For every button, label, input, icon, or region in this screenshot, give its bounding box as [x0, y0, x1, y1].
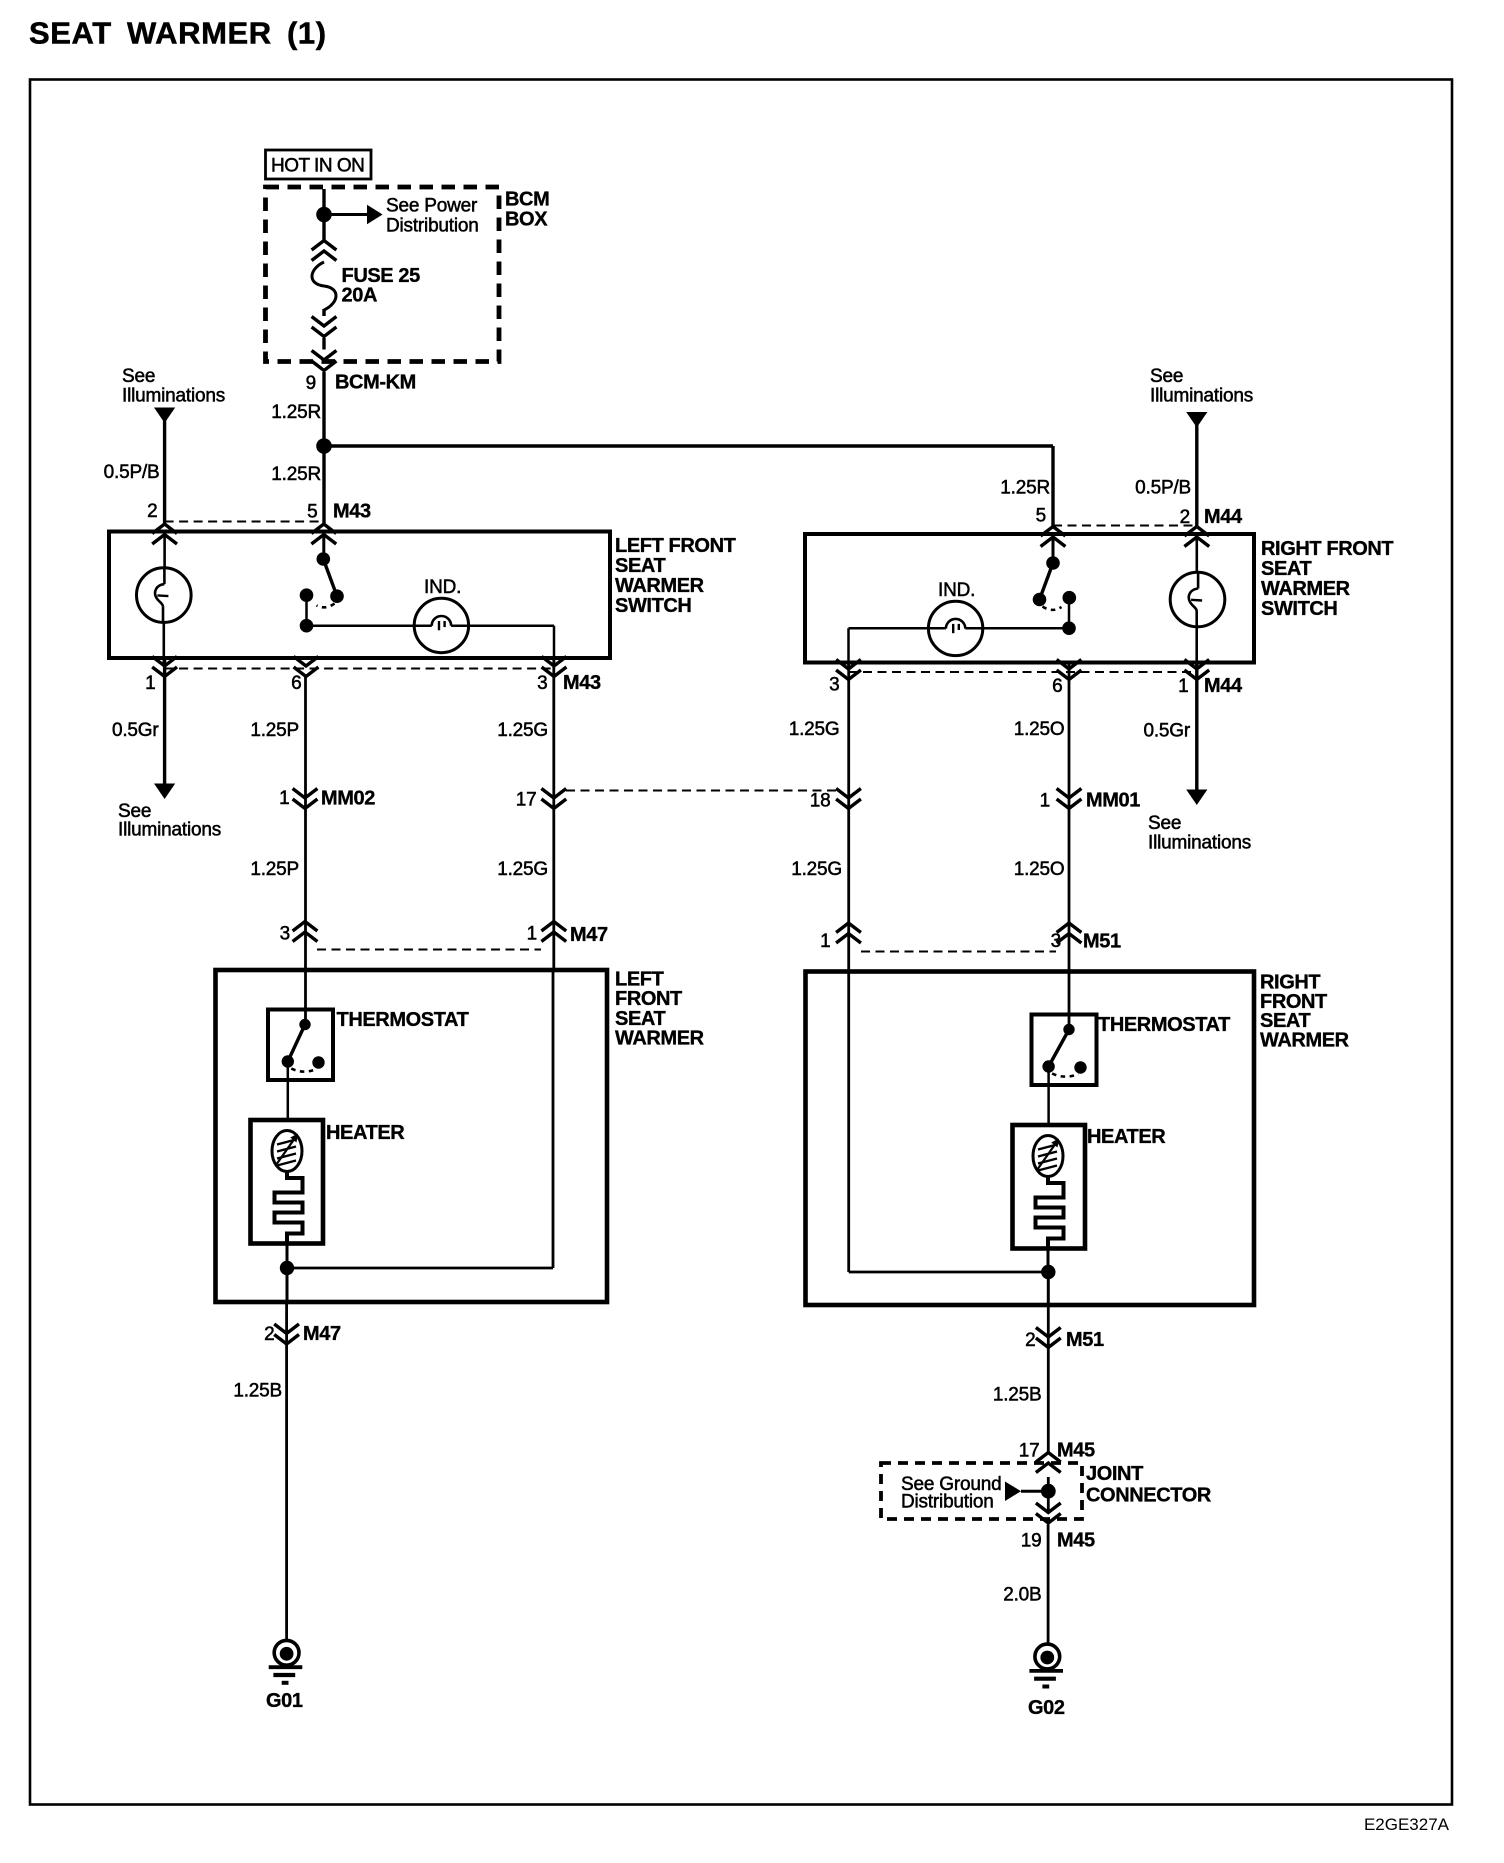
svg-text:M47: M47: [303, 1323, 341, 1345]
svg-text:BCM: BCM: [505, 189, 549, 211]
svg-text:2.0B: 2.0B: [1003, 1585, 1041, 1606]
svg-text:5: 5: [1036, 506, 1046, 527]
svg-text:THERMOSTAT: THERMOSTAT: [1098, 1014, 1230, 1036]
svg-text:WARMER: WARMER: [1260, 1029, 1350, 1051]
svg-text:1.25G: 1.25G: [791, 859, 842, 880]
svg-text:MM01: MM01: [1086, 790, 1140, 812]
svg-text:MM02: MM02: [321, 788, 375, 810]
svg-text:0.5Gr: 0.5Gr: [1143, 721, 1190, 742]
svg-text:3: 3: [1051, 931, 1061, 952]
svg-text:LEFT: LEFT: [615, 969, 664, 991]
svg-text:See: See: [122, 366, 155, 387]
svg-text:19: 19: [1021, 1531, 1042, 1552]
svg-text:E2GE327A: E2GE327A: [1364, 1815, 1450, 1834]
svg-text:6: 6: [291, 673, 301, 694]
svg-text:M44: M44: [1204, 675, 1243, 697]
svg-text:1: 1: [145, 673, 155, 694]
svg-text:1.25R: 1.25R: [271, 464, 321, 485]
svg-text:RIGHT FRONT: RIGHT FRONT: [1261, 538, 1393, 560]
svg-text:IND.: IND.: [938, 580, 975, 601]
svg-text:17: 17: [516, 790, 537, 811]
svg-text:M44: M44: [1204, 506, 1243, 528]
svg-text:1: 1: [527, 924, 537, 945]
svg-text:M43: M43: [333, 501, 371, 523]
svg-text:3: 3: [829, 675, 839, 696]
svg-text:1: 1: [820, 931, 830, 952]
svg-text:Distribution: Distribution: [386, 216, 479, 237]
svg-text:0.5Gr: 0.5Gr: [112, 720, 159, 741]
svg-text:THERMOSTAT: THERMOSTAT: [337, 1009, 469, 1031]
svg-text:Illuminations: Illuminations: [122, 386, 225, 407]
svg-text:1.25P: 1.25P: [250, 859, 299, 880]
svg-text:1.25B: 1.25B: [233, 1381, 282, 1402]
svg-text:M51: M51: [1083, 931, 1121, 953]
svg-text:6: 6: [1052, 676, 1062, 697]
svg-text:20A: 20A: [342, 285, 378, 307]
svg-text:1.25O: 1.25O: [1014, 859, 1065, 880]
svg-text:See Power: See Power: [386, 196, 478, 217]
svg-text:LEFT FRONT: LEFT FRONT: [615, 535, 736, 557]
svg-text:BCM-KM: BCM-KM: [335, 372, 416, 394]
svg-text:M45: M45: [1057, 1530, 1095, 1552]
svg-text:M51: M51: [1066, 1329, 1104, 1351]
svg-text:1: 1: [1040, 791, 1050, 812]
svg-text:WARMER: WARMER: [1261, 578, 1351, 600]
svg-text:3: 3: [537, 673, 547, 694]
svg-text:HOT IN ON: HOT IN ON: [271, 156, 364, 177]
svg-text:2: 2: [264, 1324, 274, 1345]
svg-text:1.25P: 1.25P: [250, 720, 299, 741]
svg-text:9: 9: [306, 373, 316, 394]
svg-text:M45: M45: [1057, 1440, 1095, 1462]
svg-text:3: 3: [280, 924, 290, 945]
svg-text:17: 17: [1019, 1441, 1040, 1462]
svg-text:1.25B: 1.25B: [993, 1385, 1042, 1406]
svg-text:IND.: IND.: [424, 577, 461, 598]
svg-text:BOX: BOX: [505, 209, 548, 231]
svg-text:Illuminations: Illuminations: [118, 820, 221, 841]
svg-text:SWITCH: SWITCH: [615, 595, 691, 617]
svg-text:1.25G: 1.25G: [789, 719, 840, 740]
svg-text:2: 2: [1025, 1330, 1035, 1351]
svg-text:HEATER: HEATER: [1087, 1126, 1166, 1148]
svg-text:18: 18: [810, 791, 831, 812]
svg-text:SEAT: SEAT: [1261, 558, 1311, 580]
svg-text:WARMER: WARMER: [615, 1028, 705, 1050]
svg-text:WARMER: WARMER: [615, 575, 705, 597]
svg-text:HEATER: HEATER: [326, 1122, 405, 1144]
svg-text:SEAT WARMER (1): SEAT WARMER (1): [29, 16, 327, 51]
svg-text:SEAT: SEAT: [615, 1008, 665, 1030]
svg-text:1.25O: 1.25O: [1014, 719, 1065, 740]
svg-text:5: 5: [307, 502, 317, 523]
svg-text:1.25R: 1.25R: [1000, 478, 1050, 499]
svg-text:SEAT: SEAT: [615, 555, 665, 577]
svg-text:0.5P/B: 0.5P/B: [1135, 478, 1191, 499]
svg-text:See: See: [1150, 366, 1183, 387]
svg-text:Illuminations: Illuminations: [1148, 833, 1251, 854]
svg-text:1.25G: 1.25G: [497, 720, 548, 741]
svg-text:M43: M43: [563, 672, 601, 694]
svg-text:G02: G02: [1028, 1697, 1065, 1719]
svg-text:CONNECTOR: CONNECTOR: [1086, 1485, 1212, 1507]
svg-text:See: See: [1148, 813, 1181, 834]
svg-text:1.25G: 1.25G: [497, 859, 548, 880]
svg-text:G01: G01: [266, 1690, 303, 1712]
svg-text:2: 2: [147, 501, 157, 522]
svg-text:1.25R: 1.25R: [271, 402, 321, 423]
svg-text:JOINT: JOINT: [1086, 1463, 1143, 1485]
svg-text:M47: M47: [570, 924, 608, 946]
svg-text:1: 1: [279, 788, 289, 809]
svg-text:Illuminations: Illuminations: [1150, 386, 1253, 407]
svg-text:Distribution: Distribution: [901, 1492, 994, 1513]
svg-text:SWITCH: SWITCH: [1261, 598, 1337, 620]
svg-text:1: 1: [1178, 676, 1188, 697]
svg-text:0.5P/B: 0.5P/B: [104, 462, 160, 483]
